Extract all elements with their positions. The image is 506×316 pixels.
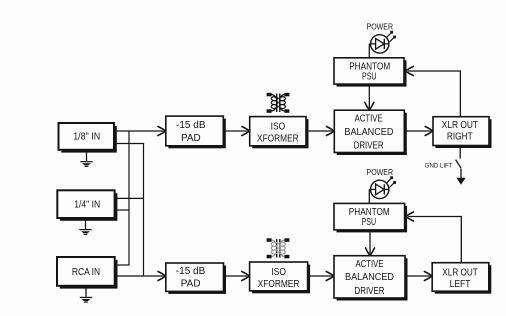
- svg-text:RIGHT: RIGHT: [447, 131, 473, 142]
- svg-text:ISO: ISO: [271, 267, 286, 278]
- wire DRIVER to XLR OUT RIGHT: [404, 130, 430, 132]
- wire PHANTOM PSU to DRIVER (top): [368, 84, 370, 108]
- arrow PSU to DRIVER (bottom): [366, 248, 375, 256]
- svg-text:GND LIFT: GND LIFT: [425, 162, 453, 169]
- wire 1/4 IN upper stub: [114, 197, 144, 199]
- LED power indicator (top): [371, 31, 397, 53]
- block -15dB PAD (top): [166, 116, 226, 148]
- wire PAD to ISO XFORMER (bottom): [224, 275, 248, 277]
- block 1/8 IN: [59, 123, 117, 153]
- wire POWER LED lead (bottom): [369, 189, 371, 203]
- block ACTIVE BALANCED DRIVER (bottom): [334, 256, 408, 301]
- wire PAD to ISO XFORMER (top): [223, 130, 247, 132]
- ground under 1/4 IN: [79, 219, 91, 235]
- svg-text:1/4" IN: 1/4" IN: [74, 200, 100, 211]
- wire POWER LED lead (top): [369, 44, 371, 58]
- arrow into top DRIVER: [327, 127, 335, 136]
- ground under RCA IN: [80, 287, 92, 303]
- wire bus line B vertical: [143, 144, 145, 277]
- svg-text:RCA IN: RCA IN: [72, 267, 100, 278]
- label POWER (bottom): [367, 168, 394, 177]
- switch GND LIFT: [456, 146, 466, 185]
- block 1/4 IN: [57, 190, 117, 221]
- svg-text:BALANCED: BALANCED: [345, 272, 394, 283]
- svg-text:POWER: POWER: [367, 168, 394, 177]
- svg-text:PAD: PAD: [181, 133, 201, 144]
- svg-text:LEFT: LEFT: [450, 279, 471, 290]
- block RCA IN: [57, 257, 118, 289]
- block -15dB PAD (bottom): [166, 263, 226, 294]
- wire ISO XFORMER to ACTIVE BALANCED DRIVER (top): [306, 130, 332, 132]
- svg-text:PAD: PAD: [181, 279, 201, 290]
- label GND LIFT: [425, 162, 453, 169]
- arrow into bottom PAD: [158, 272, 166, 281]
- arrow into PSU right side (bottom): [406, 212, 414, 221]
- svg-text:ACTIVE: ACTIVE: [356, 259, 384, 270]
- block XLR OUT RIGHT: [433, 117, 492, 148]
- wire PHANTOM PSU to DRIVER (bottom): [369, 230, 371, 254]
- svg-text:ACTIVE: ACTIVE: [355, 114, 383, 125]
- svg-text:ISO: ISO: [271, 122, 286, 133]
- block ISO XFORMER (bottom): [250, 262, 311, 293]
- ground under 1/8 IN: [80, 151, 92, 167]
- label POWER (top): [367, 22, 394, 31]
- wire RCA IN to -15dB PAD (bottom): [114, 275, 164, 277]
- svg-text:-15 dB: -15 dB: [176, 266, 206, 277]
- svg-text:-15 dB: -15 dB: [176, 120, 206, 131]
- block ISO XFORMER (top): [250, 117, 309, 149]
- svg-text:XLR OUT: XLR OUT: [442, 267, 478, 278]
- arrow into bottom ISO XFORMER: [242, 272, 250, 281]
- arrow into top ISO XFORMER: [242, 127, 250, 136]
- block ACTIVE BALANCED DRIVER (top): [334, 110, 407, 155]
- svg-text:BALANCED: BALANCED: [344, 127, 393, 138]
- LED power indicator (bottom): [371, 176, 397, 198]
- arrow PSU to DRIVER (top): [365, 102, 374, 110]
- arrow into XLR OUT RIGHT: [425, 127, 433, 136]
- svg-text:XFORMER: XFORMER: [258, 279, 300, 290]
- svg-text:XFORMER: XFORMER: [257, 133, 299, 144]
- svg-text:PSU: PSU: [362, 72, 377, 83]
- wire 1/4 IN lower stub: [114, 209, 130, 211]
- svg-text:POWER: POWER: [367, 22, 394, 31]
- wire 1/8 IN lower stub: [113, 143, 144, 145]
- svg-text:1/8" IN: 1/8" IN: [73, 132, 100, 143]
- arrow into XLR OUT LEFT: [424, 272, 432, 281]
- arrow into PSU right side (top): [406, 67, 414, 76]
- block PHANTOM PSU (bottom): [334, 203, 407, 232]
- wire feedback XLR OUT LEFT to PHANTOM PSU: [408, 217, 461, 263]
- block XLR OUT LEFT: [432, 263, 491, 294]
- transformer symbol (top): [267, 93, 290, 113]
- svg-text:PSU: PSU: [362, 217, 377, 228]
- svg-text:DRIVER: DRIVER: [354, 140, 384, 151]
- arrow into top PAD: [158, 127, 166, 136]
- arrow into bottom DRIVER: [326, 272, 334, 281]
- wire feedback XLR OUT RIGHT to PHANTOM PSU: [408, 71, 460, 117]
- wire ISO XFORMER to DRIVER (bottom): [308, 275, 332, 277]
- wire 1/8 IN to -15dB PAD (top): [113, 130, 164, 132]
- wire RCA IN upper stub: [114, 264, 130, 266]
- wire bus line A vertical: [128, 131, 130, 265]
- svg-text:DRIVER: DRIVER: [355, 286, 385, 297]
- wire DRIVER to XLR OUT LEFT: [405, 275, 430, 277]
- transformer symbol (bottom, faded): [267, 238, 290, 258]
- block PHANTOM PSU (top): [334, 58, 407, 87]
- svg-text:XLR OUT: XLR OUT: [442, 120, 478, 131]
